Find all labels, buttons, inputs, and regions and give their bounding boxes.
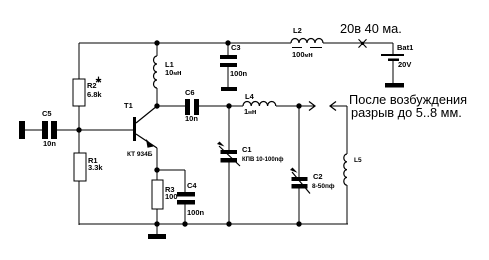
capacitor C5 [42,121,57,139]
transistor T1 [133,106,157,170]
svg-text:L2: L2 [293,26,302,35]
wire left rail bottom [78,181,80,225]
svg-text:10n: 10n [43,139,56,148]
wire collector rail c [276,105,299,107]
svg-text:C3: C3 [231,43,241,52]
resistor R2 [73,79,85,106]
junction node bottom C2 [296,221,301,226]
junction node emitter [154,167,159,172]
wire top rail left [79,42,291,44]
inductor L5 [344,154,347,224]
junction node top C3 [225,40,230,45]
junction node bottom C1 [226,221,231,226]
junction node C1 top [226,103,231,108]
arrow left gap leader [330,102,347,155]
resistor R3 [152,170,163,224]
svg-text:C5: C5 [42,109,52,118]
junction node collector [154,103,159,108]
svg-text:8-50пф: 8-50пф [312,183,335,190]
svg-text:10n: 10n [185,114,198,123]
inductor L1 [154,43,158,106]
svg-text:100мн: 100мн [292,50,313,59]
svg-text:6.8k: 6.8k [87,90,102,99]
svg-text:20в 40 ма.: 20в 40 ма. [340,21,402,36]
resistor R1 [74,153,86,181]
junction node bottom C4 [182,221,187,226]
ground C3 [221,87,237,91]
junction node bottom R3 [154,221,159,226]
input terminal [19,121,25,139]
wire top rail right [323,42,393,44]
svg-text:10мн: 10мн [165,68,182,77]
wire left rail top [78,43,80,79]
svg-text:L4: L4 [245,92,255,101]
svg-text:Bat1: Bat1 [397,43,413,52]
asterisk R2 [96,77,101,83]
capacitor C1 variable [217,106,240,224]
svg-text:C1: C1 [242,145,252,154]
svg-text:C6: C6 [185,88,195,97]
svg-text:100: 100 [165,192,178,201]
svg-text:100n: 100n [230,69,248,78]
junction node top L1 [154,40,159,45]
svg-text:разрыв до 5..8 мм.: разрыв до 5..8 мм. [351,105,462,120]
junction node C2 top [296,103,301,108]
svg-text:L5: L5 [354,157,362,164]
svg-text:КПВ 10-100пф: КПВ 10-100пф [242,156,284,163]
svg-text:C2: C2 [313,172,323,181]
capacitor C2 variable [290,106,310,224]
battery Bat1 [381,43,404,83]
wire C5 to base [56,129,134,131]
wire bottom rail [79,223,348,225]
wire left rail middle [78,106,80,153]
svg-text:R2: R2 [87,81,97,90]
inductor L2 [291,39,323,48]
svg-text:3.3k: 3.3k [88,163,103,172]
ground battery [385,83,404,88]
svg-text:100n: 100n [187,208,205,217]
svg-text:20V: 20V [398,60,411,69]
capacitor C3 [220,43,237,87]
wire collector rail b [198,105,243,107]
inductor L4 [243,101,276,106]
svg-text:КТ 934Б: КТ 934Б [127,151,153,158]
wire emitter to C4 [157,170,185,192]
junction node base [76,127,81,132]
arrow right gap [299,102,315,111]
wire collector rail a [157,105,185,107]
wire input to C5 [25,129,43,131]
breaker X [359,39,367,47]
ground emitter [148,224,166,239]
capacitor C6 [185,99,199,115]
svg-text:C4: C4 [187,181,197,190]
svg-text:T1: T1 [124,101,133,110]
capacitor C4 [177,192,195,224]
